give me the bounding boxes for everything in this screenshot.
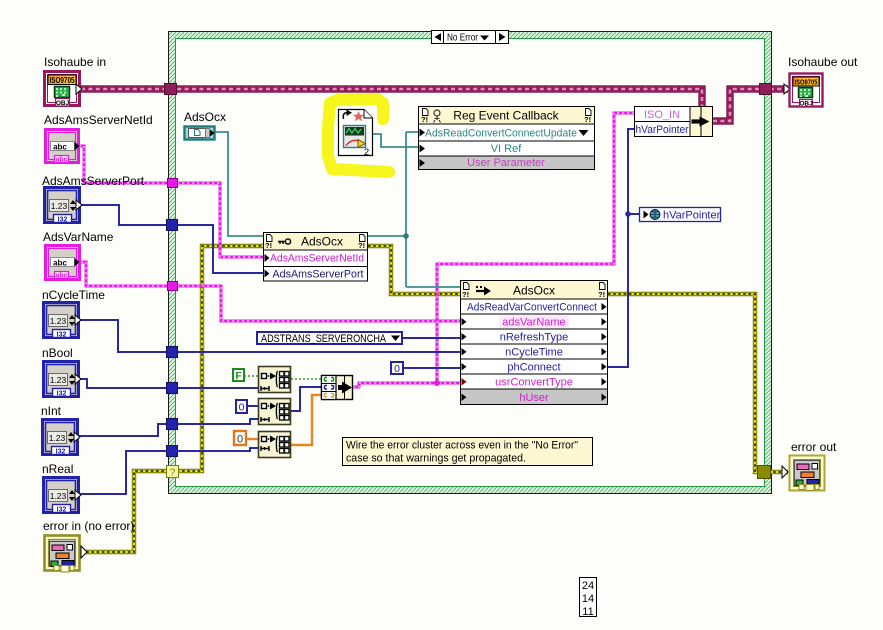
svg-text:hVarPointer: hVarPointer	[636, 124, 689, 136]
svg-text:Reg Event Callback: Reg Event Callback	[453, 109, 559, 123]
svg-text:24: 24	[582, 580, 594, 592]
svg-text:11: 11	[582, 606, 593, 618]
terminal: nReal (I32 control)	[44, 478, 82, 514]
wire: nCycleTime numeric wire (blue)	[80, 320, 460, 352]
svg-text:I32: I32	[58, 217, 68, 224]
wire: initialize-array 3 output to build-array row 3 (orange)	[291, 395, 321, 445]
wire: orange 0 constant to initialize-array 3 element input	[246, 438, 258, 440]
terminal: Isohaube in (ISO9705 class control)	[45, 72, 83, 108]
terminal: AdsAmsServerNetId (string control)	[46, 130, 80, 164]
svg-text:Isohaube out: Isohaube out	[788, 55, 858, 69]
svg-text:?!: ?!	[598, 290, 605, 299]
wire: Isohaube class wire (maroon dashed) from Isohaube in through frame to bundle node	[81, 89, 788, 121]
terminal: AdsVarName (string control)	[46, 246, 80, 280]
svg-text:OBJ: OBJ	[799, 101, 813, 108]
svg-text:1.23: 1.23	[50, 491, 67, 501]
svg-text:AdsAmsServerPort: AdsAmsServerPort	[42, 174, 145, 188]
node: AdsOcx property node (NetId/Port)	[264, 233, 368, 282]
wire: AdsAmsServerPort numeric wire (blue)	[81, 205, 263, 273]
svg-text:User Parameter: User Parameter	[467, 157, 545, 169]
terminal: AdsOcx automation refnum	[185, 127, 215, 140]
svg-text:VI Ref: VI Ref	[491, 143, 523, 155]
svg-text:?!: ?!	[265, 241, 272, 250]
svg-text:Wire the error cluster across: Wire the error cluster across even in th…	[346, 440, 578, 452]
wire: nInt numeric wire (blue) to initialize-array 2 dimension input	[79, 419, 258, 436]
svg-text:error in (no error): error in (no error)	[43, 519, 134, 533]
junction on refnum wire	[403, 233, 409, 239]
svg-text:I32: I32	[57, 391, 67, 398]
svg-text:AdsAmsServerNetId: AdsAmsServerNetId	[44, 113, 153, 127]
svg-text:usrConvertType: usrConvertType	[495, 377, 573, 389]
wire: 0 constant to phConnect row	[404, 367, 460, 369]
svg-text:AdsOcx: AdsOcx	[184, 110, 226, 124]
svg-text:phConnect: phConnect	[507, 362, 560, 374]
tunnel: nInt left border	[167, 419, 178, 430]
svg-text:?!: ?!	[584, 115, 591, 124]
terminal: nBool (I32 control)	[44, 362, 82, 398]
function: initialize array 1	[259, 367, 291, 393]
svg-text:abc: abc	[55, 273, 67, 280]
svg-text:ADSTRANS_SERVERONCHA: ADSTRANS_SERVERONCHA	[261, 333, 387, 345]
constant: 0 (phConnect)	[391, 362, 403, 375]
svg-text:adsVarName: adsVarName	[502, 317, 565, 329]
svg-text:abc: abc	[53, 143, 67, 152]
svg-text:1.23: 1.23	[49, 433, 66, 443]
svg-text:I32: I32	[57, 507, 67, 514]
node: hVarPointer global variable	[640, 208, 721, 222]
constant: 0 blue numeric	[236, 400, 247, 414]
wire: variant wire from build-array node to usrConvertType row	[353, 383, 460, 387]
terminal: error out cluster indicator	[782, 456, 825, 491]
svg-text:nInt: nInt	[41, 404, 62, 418]
junction on variant wire	[434, 380, 440, 386]
svg-text:AdsOcx: AdsOcx	[301, 235, 343, 249]
constant: 0 orange numeric	[234, 431, 246, 446]
tunnel: Isohaube class wire left border	[165, 84, 177, 95]
node: Reg Event Callback	[419, 107, 595, 170]
function: initialize array 2	[259, 399, 291, 425]
function: initialize array 3	[259, 432, 291, 458]
wire: blue 0 constant to initialize-array 2 element input	[247, 405, 258, 407]
comment: wire the error cluster note	[343, 438, 593, 466]
wire: AdsAmsServerNetId string wire (magenta)	[79, 146, 263, 257]
svg-text:No Error: No Error	[447, 32, 478, 44]
svg-text:nCycleTime: nCycleTime	[505, 347, 563, 359]
svg-text:1.23: 1.23	[51, 201, 68, 211]
terminal: error in cluster control	[45, 536, 88, 573]
wire: nReal numeric wire (blue) to initialize-array 3 dimension input	[80, 448, 258, 494]
wire: refnum vertical trunk to invoke node and Reg Event Callback (teal)	[406, 132, 460, 287]
svg-text:0: 0	[237, 434, 243, 446]
junction on phConnect wire to hVarPointer global	[625, 211, 631, 217]
tunnel: nCycleTime left border	[167, 347, 178, 358]
free label: 24 14 11	[580, 578, 597, 619]
svg-text:ISO9705: ISO9705	[50, 76, 75, 85]
svg-text:ISO_IN: ISO_IN	[644, 109, 680, 121]
svg-text:AdsReadConvertConnectUpdate: AdsReadConvertConnectUpdate	[425, 128, 577, 140]
wire: ADSTRANS enum to nRefreshType row	[403, 337, 460, 339]
wire: AdsOcx refnum to property node (teal)	[215, 132, 263, 236]
wire: variant branch up to ISO_IN bundle input (magenta)	[437, 113, 634, 383]
terminal: nCycleTime (I32 control)	[44, 303, 82, 339]
svg-text:abc: abc	[53, 259, 67, 268]
svg-text:nRefreshType: nRefreshType	[500, 332, 568, 344]
svg-text:0: 0	[394, 363, 400, 375]
svg-text:AdsOcx: AdsOcx	[513, 284, 555, 298]
svg-text:AdsAmsServerPort: AdsAmsServerPort	[273, 269, 364, 281]
svg-text:?!: ?!	[462, 290, 469, 299]
constant: ADSTRANS_SERVERONCHA enum	[257, 332, 402, 345]
case structure border (No Error frame)	[168, 31, 772, 494]
svg-text:ISO9705: ISO9705	[795, 78, 818, 87]
svg-text:1.23: 1.23	[50, 375, 67, 385]
svg-text:nCycleTime: nCycleTime	[42, 288, 105, 302]
svg-text:I32: I32	[56, 449, 66, 456]
svg-text:nBool: nBool	[42, 346, 73, 360]
wire: AdsVarName string wire (magenta) to adsVarName row	[81, 262, 460, 321]
svg-text:?!: ?!	[358, 241, 365, 250]
svg-text:hUser: hUser	[519, 392, 549, 404]
wire: initialize-array 2 output to build-array row 2	[291, 387, 321, 411]
function: build array / to variant	[322, 376, 353, 400]
wire: nBool numeric wire (blue) to initialize-array 1 dimension input	[80, 379, 258, 388]
tunnel: AdsVarName left border	[168, 282, 178, 291]
svg-text:nReal: nReal	[42, 462, 73, 476]
svg-text:?: ?	[170, 468, 176, 479]
svg-text:case so that warnings get prop: case so that warnings get propagated.	[346, 453, 526, 465]
wire: phConnect output up to ISO_IN bundle hVarPointer input (blue)	[608, 129, 640, 367]
svg-text:I32: I32	[57, 332, 67, 339]
constant: F boolean	[233, 369, 244, 382]
svg-text:0: 0	[239, 402, 245, 414]
svg-text:abc: abc	[55, 157, 67, 164]
wire: property node refnum out to junction (teal)	[368, 235, 406, 237]
svg-text:AdsAmsServerNetId: AdsAmsServerNetId	[270, 253, 364, 265]
tunnel: error out right border	[758, 466, 771, 479]
tunnel: AdsAmsServerPort left border	[167, 220, 178, 231]
wire: F boolean constant to initialize-array 1 element input (green dotted)	[244, 375, 258, 377]
tunnel: AdsAmsServerNetId left border	[168, 179, 178, 188]
wire: error cluster wire (olive/black dashed) error in -> selector -> AdsOcx nodes -> error out	[81, 246, 788, 552]
static VI reference icon (highlighted)	[339, 110, 373, 159]
svg-text:error out: error out	[791, 440, 837, 454]
svg-text:AdsVarName: AdsVarName	[43, 230, 114, 244]
svg-text:2: 2	[364, 147, 369, 158]
svg-text:OBJ: OBJ	[56, 100, 70, 107]
svg-text:14: 14	[582, 593, 594, 605]
svg-text:?!: ?!	[421, 115, 428, 124]
node: bundle-by-name ISO_IN / hVarPointer	[635, 107, 713, 137]
terminal: AdsAmsServerPort (I32 control)	[45, 188, 83, 224]
wire: static VI reference to VI Ref input (teal)	[372, 134, 418, 147]
svg-text:F: F	[235, 371, 241, 382]
svg-text:AdsReadVarConvertConnect: AdsReadVarConvertConnect	[467, 302, 597, 314]
highlight marker around VI icon	[328, 99, 389, 172]
selector label: No Error	[432, 31, 509, 44]
terminal: nInt (I32 control)	[43, 420, 81, 456]
tunnel: case selector terminal (?)	[167, 466, 179, 479]
terminal: Isohaube out (ISO9705 class indicator)	[784, 74, 823, 108]
svg-text:hVarPointer: hVarPointer	[663, 210, 721, 222]
svg-text:1.23: 1.23	[50, 316, 67, 326]
tunnel: Isohaube class wire right border	[760, 84, 772, 95]
tunnel: nBool left border	[167, 383, 178, 394]
node: AdsOcx invoke node (AdsReadVarConvertConnect)	[461, 281, 608, 405]
svg-text:Isohaube in: Isohaube in	[44, 55, 106, 69]
tunnel: nReal left border	[167, 446, 178, 457]
wire: initialize-array 1 output to build-array row 1 (green dotted)	[291, 378, 321, 380]
